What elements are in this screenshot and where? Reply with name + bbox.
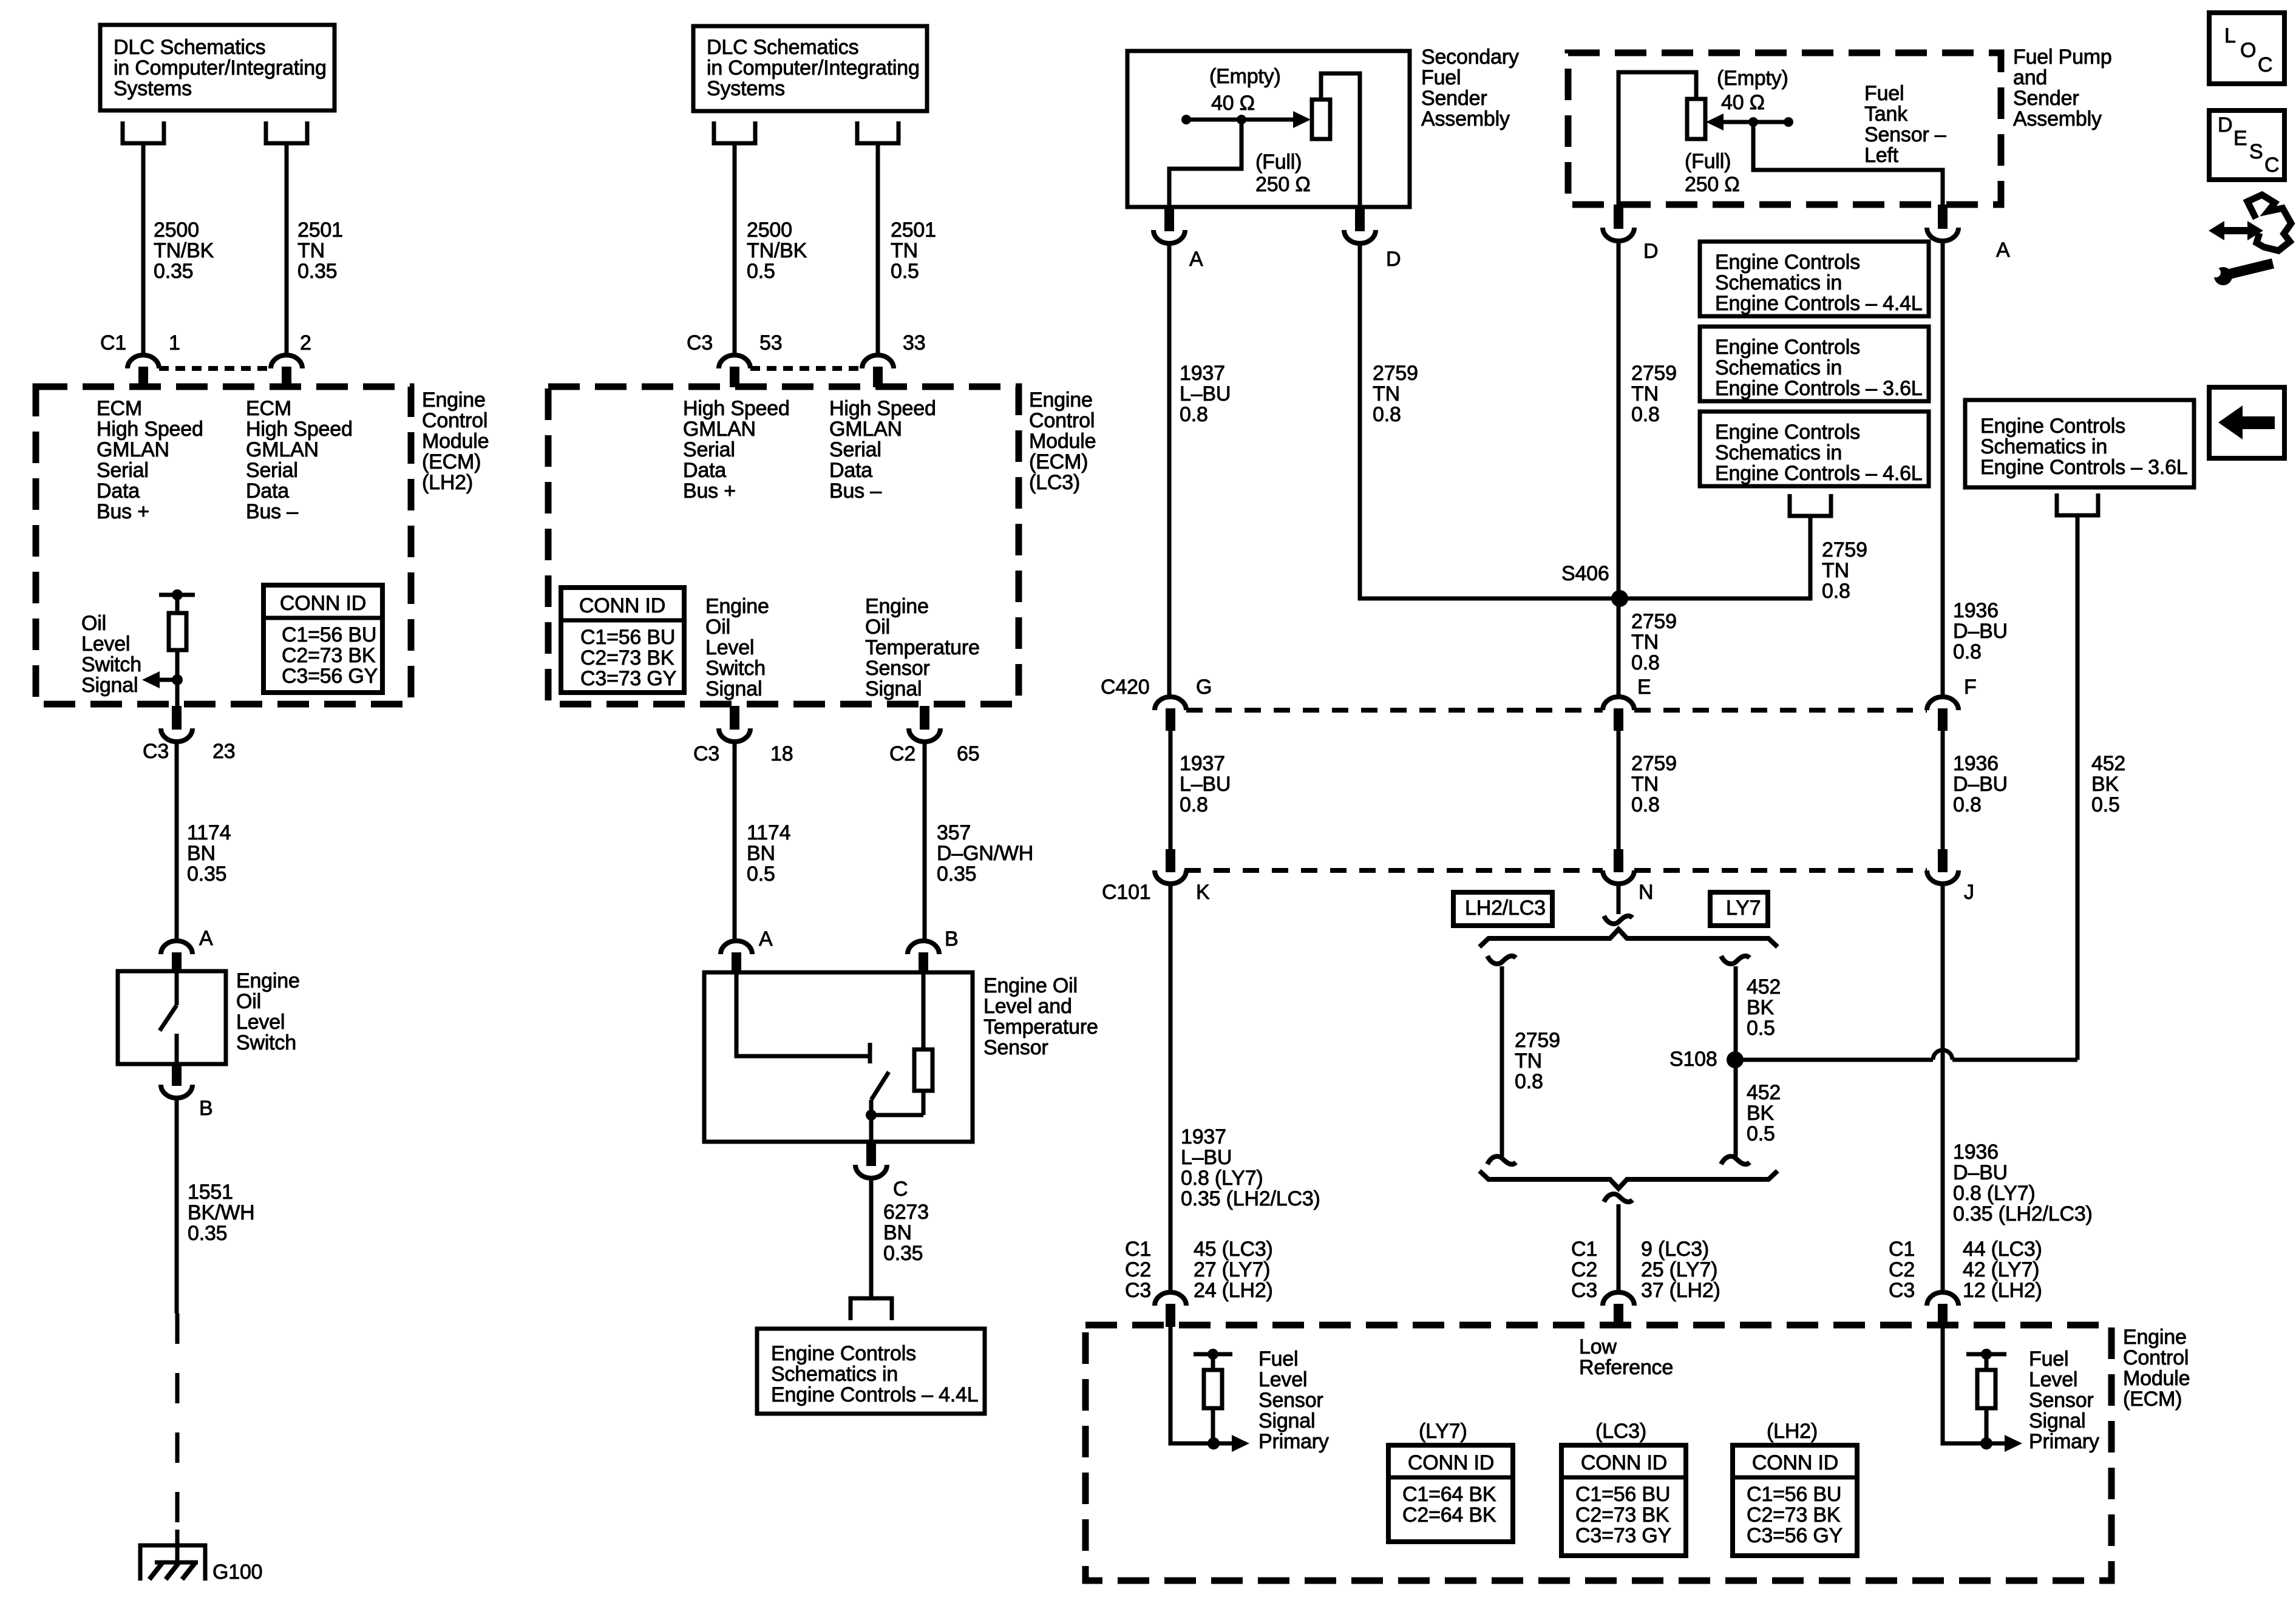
svg-text:Engine Controls – 4.4L: Engine Controls – 4.4L xyxy=(771,1383,979,1406)
svg-text:Reference: Reference xyxy=(1579,1356,1673,1379)
svg-text:N: N xyxy=(1639,881,1653,904)
svg-text:1937: 1937 xyxy=(1180,362,1225,385)
svg-text:Signal: Signal xyxy=(865,677,922,700)
svg-text:F: F xyxy=(1964,676,1977,699)
svg-text:D: D xyxy=(2218,114,2232,137)
svg-text:Engine Controls: Engine Controls xyxy=(1715,421,1860,444)
svg-text:2501: 2501 xyxy=(297,219,343,242)
svg-text:C1: C1 xyxy=(1889,1238,1915,1261)
svg-text:0.35: 0.35 xyxy=(297,260,337,283)
svg-text:1936: 1936 xyxy=(1953,752,1999,775)
svg-text:C3: C3 xyxy=(693,742,719,765)
svg-text:40 Ω: 40 Ω xyxy=(1721,91,1765,114)
svg-text:C1=56 BU: C1=56 BU xyxy=(282,623,376,646)
svg-text:Systems: Systems xyxy=(114,77,192,100)
svg-text:0.8: 0.8 xyxy=(1822,580,1850,603)
svg-text:23: 23 xyxy=(212,740,235,763)
svg-text:CONN ID: CONN ID xyxy=(280,592,366,615)
svg-text:Level: Level xyxy=(1258,1368,1307,1391)
svg-text:Fuel Pump: Fuel Pump xyxy=(2013,46,2112,69)
svg-text:C1: C1 xyxy=(1125,1238,1151,1261)
svg-text:LY7: LY7 xyxy=(1726,897,1761,920)
svg-text:(LH2): (LH2) xyxy=(1767,1420,1818,1443)
svg-text:CONN ID: CONN ID xyxy=(1581,1451,1667,1474)
svg-text:BN: BN xyxy=(187,842,216,865)
svg-text:Fuel: Fuel xyxy=(1864,82,1904,105)
svg-text:0.8: 0.8 xyxy=(1180,793,1208,816)
svg-text:0.5: 0.5 xyxy=(2091,793,2120,816)
svg-text:9 (LC3): 9 (LC3) xyxy=(1641,1238,1709,1261)
svg-text:Assembly: Assembly xyxy=(1421,107,1510,131)
svg-text:Schematics in: Schematics in xyxy=(1980,435,2107,458)
svg-text:1551: 1551 xyxy=(188,1181,233,1204)
svg-text:BK: BK xyxy=(2091,773,2119,796)
svg-text:TN: TN xyxy=(1515,1049,1542,1073)
svg-text:CONN ID: CONN ID xyxy=(1408,1451,1494,1474)
svg-text:DLC Schematics: DLC Schematics xyxy=(707,36,858,59)
svg-text:(Empty): (Empty) xyxy=(1717,67,1788,90)
svg-text:250 Ω: 250 Ω xyxy=(1255,173,1311,196)
svg-text:0.35: 0.35 xyxy=(187,863,226,886)
svg-text:L: L xyxy=(2224,24,2236,47)
svg-text:44 (LC3): 44 (LC3) xyxy=(1963,1238,2042,1261)
svg-text:Module: Module xyxy=(1029,430,1096,453)
svg-text:0.8: 0.8 xyxy=(1515,1070,1543,1093)
svg-text:O: O xyxy=(2240,39,2256,62)
svg-text:2759: 2759 xyxy=(1515,1029,1560,1052)
svg-text:0.5: 0.5 xyxy=(747,260,775,283)
svg-text:in Computer/Integrating: in Computer/Integrating xyxy=(707,56,920,80)
svg-text:Signal: Signal xyxy=(1258,1409,1315,1432)
svg-text:(LC3): (LC3) xyxy=(1595,1420,1646,1443)
svg-text:BK/WH: BK/WH xyxy=(188,1201,254,1224)
svg-text:1936: 1936 xyxy=(1953,1141,1999,1164)
svg-text:0.5: 0.5 xyxy=(747,863,775,886)
svg-text:452: 452 xyxy=(2091,752,2125,775)
svg-text:1174: 1174 xyxy=(187,821,231,844)
svg-text:Engine: Engine xyxy=(2123,1326,2187,1349)
svg-text:L–BU: L–BU xyxy=(1181,1146,1232,1169)
svg-text:452: 452 xyxy=(1747,975,1781,998)
svg-text:J: J xyxy=(1964,881,1974,904)
svg-text:Engine Controls: Engine Controls xyxy=(1980,415,2125,438)
svg-text:E: E xyxy=(1637,676,1651,699)
svg-text:B: B xyxy=(945,927,958,951)
svg-text:TN: TN xyxy=(891,239,918,262)
svg-text:Engine: Engine xyxy=(705,595,769,618)
svg-text:2759: 2759 xyxy=(1373,362,1418,385)
svg-text:Low: Low xyxy=(1579,1335,1617,1358)
svg-text:0.8 (LY7): 0.8 (LY7) xyxy=(1953,1182,2036,1205)
svg-text:ECM: ECM xyxy=(246,397,291,420)
svg-text:A: A xyxy=(199,927,213,950)
svg-text:Level: Level xyxy=(81,632,130,656)
svg-text:452: 452 xyxy=(1747,1081,1781,1104)
svg-text:TN: TN xyxy=(1373,382,1400,405)
svg-text:(LH2): (LH2) xyxy=(422,471,473,494)
svg-text:Left: Left xyxy=(1864,144,1899,167)
svg-text:1936: 1936 xyxy=(1953,599,1999,622)
svg-text:Data: Data xyxy=(246,480,289,503)
svg-text:Schematics in: Schematics in xyxy=(771,1363,898,1386)
svg-text:Sensor: Sensor xyxy=(1258,1389,1323,1412)
svg-text:Module: Module xyxy=(2123,1367,2190,1390)
svg-text:Oil: Oil xyxy=(236,990,261,1013)
svg-text:Engine Controls – 4.4L: Engine Controls – 4.4L xyxy=(1715,292,1923,315)
svg-text:C1: C1 xyxy=(1571,1238,1597,1261)
svg-text:Level: Level xyxy=(236,1011,285,1034)
svg-text:(Full): (Full) xyxy=(1685,150,1731,173)
svg-text:Serial: Serial xyxy=(829,438,881,461)
svg-text:CONN ID: CONN ID xyxy=(1752,1451,1838,1474)
svg-text:C101: C101 xyxy=(1102,881,1150,904)
svg-text:0.35: 0.35 xyxy=(188,1222,227,1245)
svg-text:C2: C2 xyxy=(1125,1258,1151,1281)
svg-text:250 Ω: 250 Ω xyxy=(1685,173,1740,196)
svg-text:18: 18 xyxy=(770,742,793,765)
svg-text:Level and: Level and xyxy=(983,995,1072,1018)
svg-text:BN: BN xyxy=(883,1221,912,1244)
svg-text:and: and xyxy=(2013,66,2047,89)
svg-text:40 Ω: 40 Ω xyxy=(1211,92,1255,115)
svg-text:27 (LY7): 27 (LY7) xyxy=(1194,1258,1270,1281)
svg-text:45 (LC3): 45 (LC3) xyxy=(1194,1238,1273,1261)
svg-text:G: G xyxy=(1196,676,1212,699)
svg-text:(LY7): (LY7) xyxy=(1419,1420,1467,1443)
svg-text:C3: C3 xyxy=(687,331,713,354)
svg-text:E: E xyxy=(2233,127,2247,150)
svg-text:A: A xyxy=(759,927,773,951)
svg-text:Level: Level xyxy=(705,636,754,659)
svg-text:Switch: Switch xyxy=(705,657,766,680)
svg-text:C2: C2 xyxy=(889,742,915,765)
svg-text:53: 53 xyxy=(759,331,782,354)
svg-text:Secondary: Secondary xyxy=(1421,46,1519,69)
svg-text:C1=56 BU: C1=56 BU xyxy=(1747,1483,1841,1506)
svg-text:Bus +: Bus + xyxy=(683,480,736,503)
svg-text:C1: C1 xyxy=(100,331,126,354)
svg-text:C1=56 BU: C1=56 BU xyxy=(1575,1483,1670,1506)
svg-text:Engine: Engine xyxy=(1029,388,1093,412)
svg-text:GMLAN: GMLAN xyxy=(97,438,169,461)
svg-text:(Empty): (Empty) xyxy=(1209,65,1281,88)
svg-text:High Speed: High Speed xyxy=(246,418,353,441)
svg-text:Signal: Signal xyxy=(81,674,138,697)
svg-text:Oil: Oil xyxy=(865,615,890,639)
svg-text:Schematics in: Schematics in xyxy=(1715,356,1842,379)
svg-text:(Full): (Full) xyxy=(1255,151,1302,174)
svg-text:Engine Oil: Engine Oil xyxy=(983,974,1078,997)
svg-text:C3: C3 xyxy=(1889,1279,1915,1302)
svg-text:2759: 2759 xyxy=(1631,362,1677,385)
svg-text:TN: TN xyxy=(1631,382,1659,405)
svg-text:0.8: 0.8 xyxy=(1631,793,1660,816)
svg-text:0.5: 0.5 xyxy=(1747,1017,1775,1040)
svg-text:Sender: Sender xyxy=(1421,87,1487,110)
svg-text:Engine Controls – 4.6L: Engine Controls – 4.6L xyxy=(1715,462,1923,485)
svg-text:Temperature: Temperature xyxy=(865,636,980,659)
svg-text:TN: TN xyxy=(1631,773,1659,796)
svg-text:D–BU: D–BU xyxy=(1953,1161,2008,1184)
svg-text:High Speed: High Speed xyxy=(829,397,936,420)
svg-text:Engine Controls – 3.6L: Engine Controls – 3.6L xyxy=(1715,377,1923,400)
svg-text:C3=73 GY: C3=73 GY xyxy=(1575,1524,1671,1547)
svg-text:2500: 2500 xyxy=(747,219,792,242)
svg-text:(ECM): (ECM) xyxy=(1029,450,1088,473)
svg-text:TN: TN xyxy=(1631,631,1659,654)
svg-text:Level: Level xyxy=(2029,1368,2077,1391)
svg-text:D–BU: D–BU xyxy=(1953,773,2008,796)
svg-text:0.8 (LY7): 0.8 (LY7) xyxy=(1181,1167,1263,1190)
svg-text:0.35: 0.35 xyxy=(883,1242,923,1265)
svg-text:24 (LH2): 24 (LH2) xyxy=(1194,1279,1273,1302)
svg-text:C2=73 BK: C2=73 BK xyxy=(1747,1503,1841,1527)
svg-text:Temperature: Temperature xyxy=(983,1015,1098,1039)
svg-text:0.35 (LH2/LC3): 0.35 (LH2/LC3) xyxy=(1953,1202,2093,1225)
svg-text:Signal: Signal xyxy=(2029,1409,2085,1432)
svg-text:S: S xyxy=(2249,140,2263,163)
svg-text:42 (LY7): 42 (LY7) xyxy=(1963,1258,2039,1281)
svg-text:(LC3): (LC3) xyxy=(1029,471,1080,494)
svg-text:C1=56 BU: C1=56 BU xyxy=(580,626,675,649)
svg-text:6273: 6273 xyxy=(883,1201,929,1224)
svg-text:C2=73 BK: C2=73 BK xyxy=(282,644,376,667)
svg-text:A: A xyxy=(1189,248,1203,271)
svg-text:ECM: ECM xyxy=(97,397,142,420)
svg-text:Module: Module xyxy=(422,430,489,453)
svg-text:Data: Data xyxy=(683,459,726,482)
svg-text:Primary: Primary xyxy=(2029,1430,2099,1453)
svg-text:0.8: 0.8 xyxy=(1631,403,1660,426)
svg-text:0.8: 0.8 xyxy=(1953,640,1982,663)
svg-text:Schematics in: Schematics in xyxy=(1715,441,1842,464)
svg-text:A: A xyxy=(1996,239,2010,262)
svg-text:TN: TN xyxy=(1822,559,1849,582)
svg-text:357: 357 xyxy=(937,821,971,844)
svg-text:BK: BK xyxy=(1747,996,1774,1019)
svg-text:C: C xyxy=(2258,53,2272,76)
svg-text:Data: Data xyxy=(97,480,140,503)
svg-text:0.8: 0.8 xyxy=(1953,793,1982,816)
svg-text:DLC Schematics: DLC Schematics xyxy=(114,36,265,59)
svg-text:Data: Data xyxy=(829,459,872,482)
svg-text:1937: 1937 xyxy=(1181,1125,1226,1148)
svg-text:Bus –: Bus – xyxy=(246,500,298,523)
svg-text:2501: 2501 xyxy=(891,219,936,242)
svg-text:Engine Controls: Engine Controls xyxy=(771,1342,916,1365)
svg-text:Fuel: Fuel xyxy=(2029,1347,2068,1371)
svg-text:GMLAN: GMLAN xyxy=(246,438,319,461)
svg-text:S108: S108 xyxy=(1669,1048,1717,1071)
svg-text:1174: 1174 xyxy=(747,821,790,844)
svg-text:0.8: 0.8 xyxy=(1631,651,1660,674)
svg-text:C1=64 BK: C1=64 BK xyxy=(1402,1483,1496,1506)
svg-text:0.5: 0.5 xyxy=(1747,1122,1775,1145)
svg-text:2759: 2759 xyxy=(1822,538,1867,561)
svg-text:1937: 1937 xyxy=(1180,752,1225,775)
svg-text:37 (LH2): 37 (LH2) xyxy=(1641,1279,1720,1302)
svg-text:C: C xyxy=(2264,154,2279,177)
svg-text:BN: BN xyxy=(747,842,775,865)
svg-text:G100: G100 xyxy=(212,1561,262,1584)
svg-text:Engine Controls: Engine Controls xyxy=(1715,336,1860,359)
svg-text:C2=64 BK: C2=64 BK xyxy=(1402,1503,1496,1527)
svg-text:B: B xyxy=(199,1097,212,1120)
svg-text:C3=56 GY: C3=56 GY xyxy=(1747,1524,1843,1547)
svg-text:Switch: Switch xyxy=(236,1031,296,1054)
svg-text:Serial: Serial xyxy=(683,438,735,461)
svg-text:C3: C3 xyxy=(1571,1279,1597,1302)
svg-text:Sensor: Sensor xyxy=(2029,1389,2094,1412)
svg-text:2759: 2759 xyxy=(1631,752,1677,775)
svg-text:25 (LY7): 25 (LY7) xyxy=(1641,1258,1717,1281)
svg-text:C2=73 BK: C2=73 BK xyxy=(580,646,674,670)
svg-text:2: 2 xyxy=(300,331,311,354)
svg-text:Schematics in: Schematics in xyxy=(1715,271,1842,294)
svg-text:0.5: 0.5 xyxy=(891,260,919,283)
svg-text:GMLAN: GMLAN xyxy=(829,418,902,441)
svg-text:TN/BK: TN/BK xyxy=(154,239,214,262)
svg-text:D–BU: D–BU xyxy=(1953,620,2008,643)
svg-text:Assembly: Assembly xyxy=(2013,107,2102,131)
svg-text:C2=73 BK: C2=73 BK xyxy=(1575,1503,1669,1527)
svg-text:GMLAN: GMLAN xyxy=(683,418,756,441)
svg-text:L–BU: L–BU xyxy=(1180,773,1231,796)
svg-text:0.35: 0.35 xyxy=(937,863,976,886)
svg-text:Control: Control xyxy=(2123,1346,2189,1369)
svg-text:CONN ID: CONN ID xyxy=(579,594,665,617)
svg-text:Signal: Signal xyxy=(705,677,762,700)
svg-text:Switch: Switch xyxy=(81,653,141,676)
svg-text:L–BU: L–BU xyxy=(1180,382,1231,405)
svg-text:C420: C420 xyxy=(1101,676,1149,699)
svg-text:Engine: Engine xyxy=(865,595,929,618)
svg-text:D: D xyxy=(1643,240,1658,263)
svg-text:Control: Control xyxy=(1029,409,1095,432)
svg-text:(ECM): (ECM) xyxy=(422,450,481,473)
svg-text:Engine: Engine xyxy=(236,969,300,992)
svg-text:(ECM): (ECM) xyxy=(2123,1388,2182,1411)
svg-text:33: 33 xyxy=(903,331,925,354)
svg-text:C2: C2 xyxy=(1889,1258,1915,1281)
svg-text:Fuel: Fuel xyxy=(1258,1347,1298,1371)
svg-text:Serial: Serial xyxy=(97,459,149,482)
svg-text:Serial: Serial xyxy=(246,459,298,482)
svg-text:Bus –: Bus – xyxy=(829,480,881,503)
svg-text:Control: Control xyxy=(422,409,487,432)
svg-text:2500: 2500 xyxy=(154,219,199,242)
svg-text:C3=73 GY: C3=73 GY xyxy=(580,667,676,690)
svg-text:Oil: Oil xyxy=(705,615,730,639)
svg-text:Sensor –: Sensor – xyxy=(1864,123,1946,146)
svg-text:S406: S406 xyxy=(1561,562,1609,585)
svg-text:BK: BK xyxy=(1747,1102,1774,1125)
svg-text:Primary: Primary xyxy=(1258,1430,1329,1453)
svg-text:Tank: Tank xyxy=(1864,103,1908,126)
svg-text:C3: C3 xyxy=(1125,1279,1151,1302)
svg-text:High Speed: High Speed xyxy=(97,418,203,441)
svg-text:1: 1 xyxy=(169,331,180,354)
svg-text:Sender: Sender xyxy=(2013,87,2079,110)
svg-text:2759: 2759 xyxy=(1631,610,1677,633)
svg-text:0.8: 0.8 xyxy=(1180,403,1208,426)
svg-text:C: C xyxy=(893,1178,908,1201)
svg-text:in Computer/Integrating: in Computer/Integrating xyxy=(114,56,327,80)
svg-text:TN/BK: TN/BK xyxy=(747,239,807,262)
svg-text:Engine Controls: Engine Controls xyxy=(1715,251,1860,274)
svg-text:Engine: Engine xyxy=(422,388,486,412)
svg-text:Fuel: Fuel xyxy=(1421,66,1461,89)
svg-text:Engine Controls – 3.6L: Engine Controls – 3.6L xyxy=(1980,456,2188,479)
svg-text:D: D xyxy=(1386,248,1401,271)
svg-text:0.8: 0.8 xyxy=(1373,403,1401,426)
svg-text:C3: C3 xyxy=(143,740,169,763)
svg-text:0.35: 0.35 xyxy=(154,260,193,283)
svg-text:Systems: Systems xyxy=(707,77,785,100)
svg-text:High Speed: High Speed xyxy=(683,397,790,420)
svg-text:Bus +: Bus + xyxy=(97,500,149,523)
svg-text:65: 65 xyxy=(957,742,979,765)
svg-text:LH2/LC3: LH2/LC3 xyxy=(1465,897,1546,920)
svg-text:Sensor: Sensor xyxy=(983,1036,1048,1059)
svg-text:C2: C2 xyxy=(1571,1258,1597,1281)
svg-text:C3=56 GY: C3=56 GY xyxy=(282,665,378,688)
svg-text:0.35 (LH2/LC3): 0.35 (LH2/LC3) xyxy=(1181,1187,1320,1210)
svg-text:Oil: Oil xyxy=(81,612,106,635)
svg-text:Sensor: Sensor xyxy=(865,657,930,680)
svg-text:12 (LH2): 12 (LH2) xyxy=(1963,1279,2042,1302)
svg-text:TN: TN xyxy=(297,239,325,262)
svg-text:K: K xyxy=(1196,881,1210,904)
svg-text:D–GN/WH: D–GN/WH xyxy=(937,842,1033,865)
